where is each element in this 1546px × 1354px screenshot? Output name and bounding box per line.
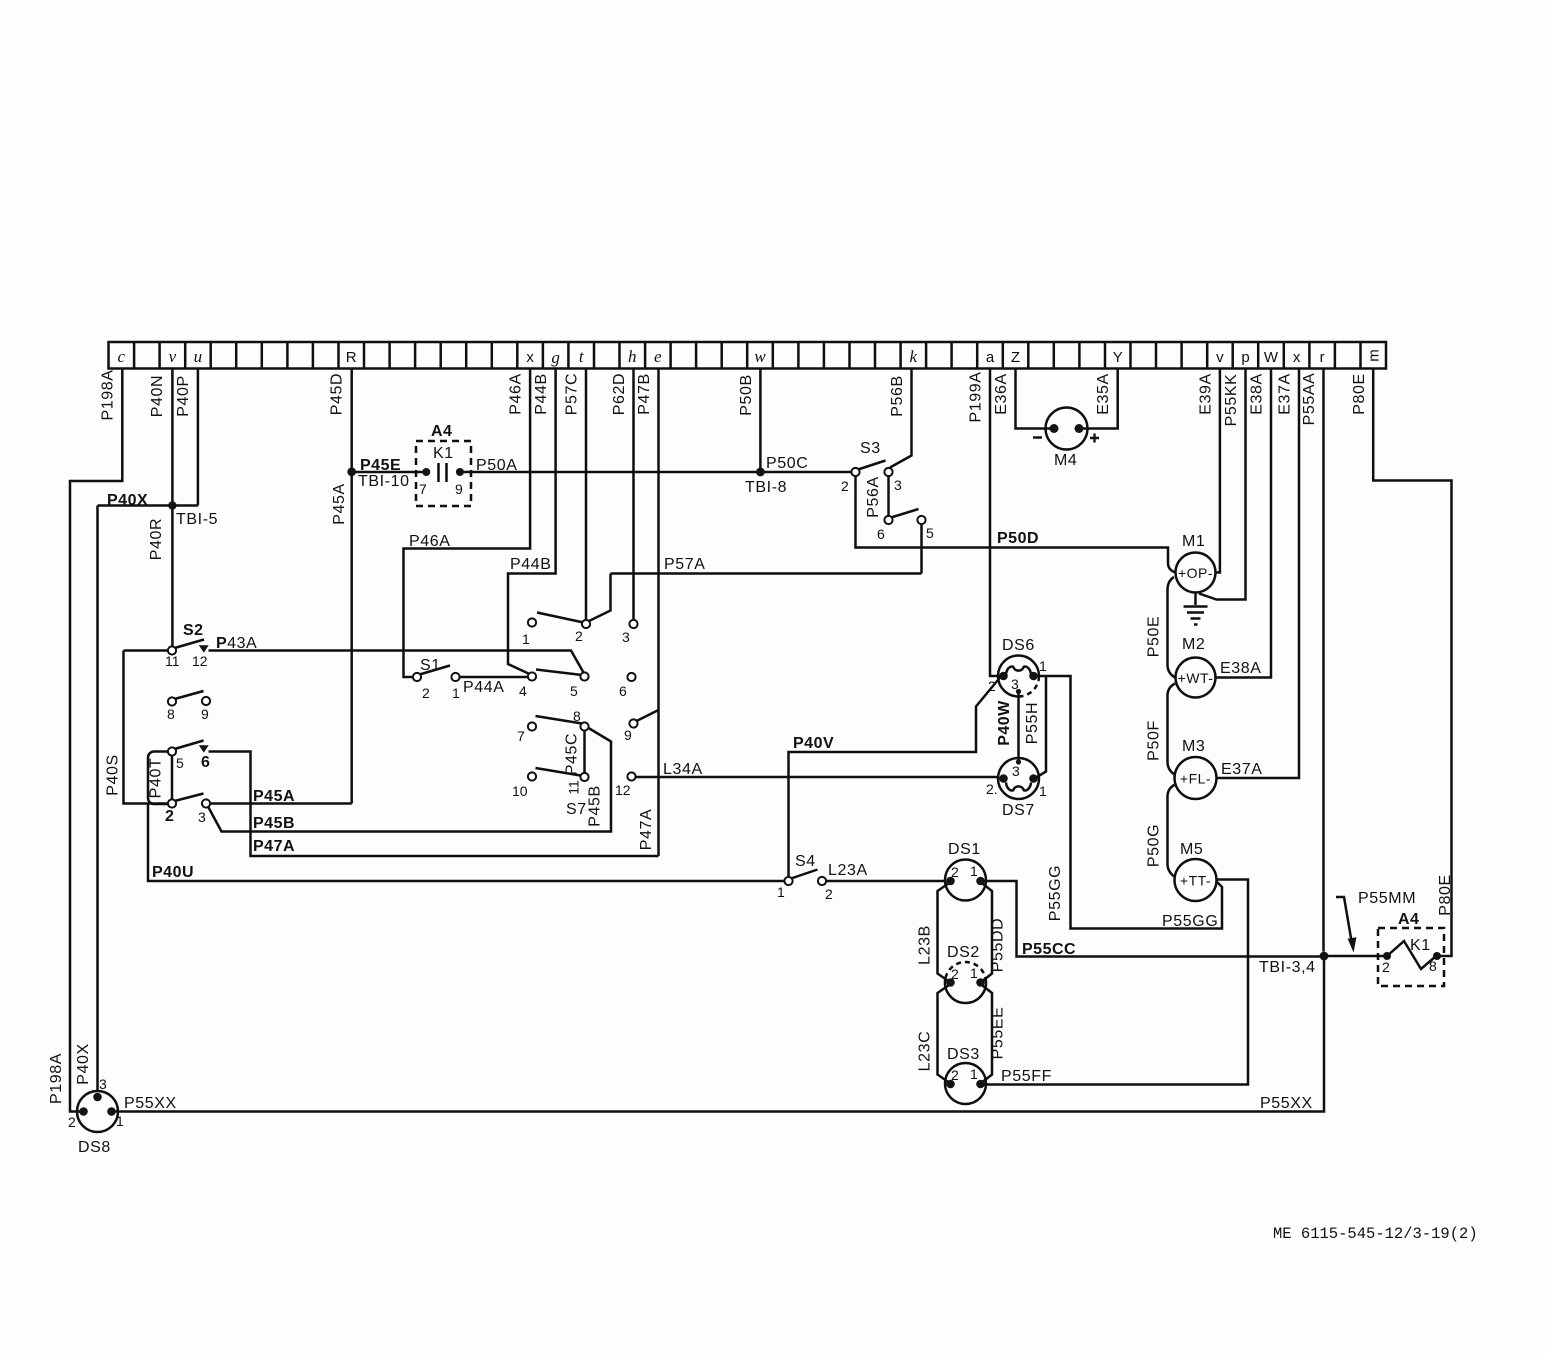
- svg-text:P47A: P47A: [638, 809, 655, 851]
- wire P55EE: [981, 984, 993, 1084]
- lamp DS7 pin dots: [999, 774, 1008, 783]
- svg-text:3: 3: [894, 477, 902, 493]
- junction TB1-3,4: [1320, 952, 1329, 961]
- switch S7 pin 6: [627, 673, 635, 681]
- switch S7 pin 2: [582, 620, 590, 628]
- svg-text:p: p: [1241, 349, 1249, 366]
- svg-text:c: c: [118, 347, 126, 366]
- wire P62D: [632, 369, 635, 621]
- switch S7 pin 12: [627, 772, 635, 780]
- switch S2 sec 2-3 arm: [175, 794, 204, 802]
- strip terminal letters: [118, 347, 1383, 367]
- svg-text:P50B: P50B: [738, 374, 755, 416]
- wire P50D: [856, 476, 1176, 573]
- svg-text:A4: A4: [1398, 911, 1419, 928]
- svg-text:P80E: P80E: [1437, 874, 1454, 916]
- svg-text:2: 2: [1382, 959, 1390, 975]
- svg-text:Y: Y: [1113, 349, 1123, 366]
- svg-text:P50D: P50D: [997, 530, 1039, 547]
- P55MM leader arrow: [1336, 897, 1352, 941]
- wire L23A: [826, 880, 946, 883]
- switch S4 pin 2: [818, 877, 826, 885]
- svg-text:S3: S3: [860, 440, 881, 457]
- wire P45C: [583, 727, 586, 778]
- svg-text:E37A: E37A: [1221, 761, 1263, 778]
- svg-text:P55FF: P55FF: [1001, 1068, 1052, 1085]
- svg-text:E38A: E38A: [1249, 373, 1266, 415]
- wire P45A horizontal: [210, 802, 352, 805]
- switch S7 pin 8: [580, 722, 588, 730]
- svg-text:5: 5: [176, 755, 184, 771]
- wire P40V: [789, 678, 1001, 878]
- relay K1 pin 7 dot: [422, 468, 430, 476]
- svg-text:A4: A4: [431, 423, 452, 440]
- wire E38A: [1216, 369, 1272, 678]
- junction P45E: [347, 467, 356, 476]
- svg-text:P44B: P44B: [533, 373, 550, 415]
- wire L23B: [938, 882, 951, 983]
- lamp DS3 circle: [945, 1063, 986, 1104]
- wire P40P: [197, 369, 200, 506]
- svg-text:v: v: [1216, 349, 1224, 366]
- meter M5 circle: [1175, 859, 1217, 901]
- svg-text:P45B: P45B: [253, 815, 295, 832]
- switch S3 pin 6: [884, 516, 892, 524]
- switch S2 pin 8: [168, 697, 176, 705]
- svg-text:P47B: P47B: [636, 373, 653, 415]
- svg-text:P47A: P47A: [253, 838, 295, 855]
- switch S2 pin 5: [168, 747, 176, 755]
- svg-text:v: v: [169, 347, 177, 366]
- svg-text:Z: Z: [1011, 349, 1020, 366]
- svg-text:M2: M2: [1182, 636, 1205, 653]
- svg-text:5: 5: [926, 525, 934, 541]
- svg-text:L23C: L23C: [917, 1031, 934, 1072]
- wire P43A: [209, 651, 584, 673]
- switch S2 pin 9: [202, 697, 210, 705]
- svg-text:1: 1: [970, 1066, 978, 1082]
- switch S1 pin 2: [413, 673, 421, 681]
- svg-text:M1: M1: [1182, 533, 1205, 550]
- svg-text:P40S: P40S: [105, 754, 122, 796]
- switch S3 pin 3: [884, 468, 892, 476]
- svg-text:3: 3: [1012, 763, 1020, 779]
- switch S1 pin 1: [451, 673, 459, 681]
- svg-text:M4: M4: [1054, 452, 1077, 469]
- svg-text:DS1: DS1: [948, 841, 981, 858]
- switch S7 pin 1: [528, 618, 536, 626]
- switch S7 pin 9: [629, 719, 637, 727]
- lamp DS1 circle: [945, 860, 986, 901]
- svg-text:3: 3: [99, 1076, 107, 1092]
- wire L34A: [634, 776, 1000, 779]
- svg-text:1: 1: [1039, 783, 1047, 799]
- svg-text:+WT-: +WT-: [1178, 670, 1214, 686]
- svg-text:5: 5: [570, 683, 578, 699]
- wire P80E: [1373, 369, 1451, 957]
- svg-text:1: 1: [777, 884, 785, 900]
- svg-text:TBI-8: TBI-8: [745, 479, 787, 496]
- switch S2 pin 2: [168, 799, 176, 807]
- switch S4 pin 1: [784, 877, 792, 885]
- switch S2 pin 11: [168, 646, 176, 654]
- svg-text:2: 2: [841, 478, 849, 494]
- wire P47B: [657, 369, 660, 857]
- svg-text:S1: S1: [420, 657, 441, 674]
- svg-text:L23B: L23B: [917, 925, 934, 965]
- svg-text:4: 4: [519, 683, 527, 699]
- wire P55AA: [1322, 369, 1325, 952]
- svg-text:12: 12: [615, 782, 631, 798]
- svg-text:P199A: P199A: [968, 371, 985, 422]
- svg-text:M5: M5: [1180, 841, 1203, 858]
- switch S2 pin 3: [202, 799, 210, 807]
- svg-text:1: 1: [116, 1113, 124, 1129]
- svg-text:P45D: P45D: [329, 373, 346, 415]
- svg-text:P45A: P45A: [331, 483, 348, 525]
- wire P45B: [208, 728, 611, 832]
- wire TB1-3,4 to K1 pin 2: [1324, 955, 1387, 958]
- wire P55H: [1035, 676, 1047, 779]
- switch S2 sec 8-9 arm: [175, 691, 204, 699]
- svg-text:1: 1: [452, 685, 460, 701]
- switch S3 pin 5: [917, 516, 925, 524]
- svg-text:P50A: P50A: [476, 457, 518, 474]
- svg-text:P55EE: P55EE: [990, 1007, 1007, 1060]
- svg-text:K1: K1: [1410, 937, 1431, 954]
- svg-text:S2: S2: [183, 622, 204, 639]
- svg-text:E38A: E38A: [1220, 660, 1262, 677]
- switch S7 pin 11: [580, 773, 588, 781]
- wire P50G: [1168, 785, 1176, 878]
- svg-text:P45E: P45E: [360, 457, 401, 474]
- switch S4 arm: [791, 870, 818, 879]
- svg-text:P40X: P40X: [107, 492, 148, 509]
- svg-text:TBI-3,4: TBI-3,4: [1259, 959, 1316, 976]
- wire TB1-5 tie: [98, 504, 198, 507]
- switch S3 sec 6-5 arm: [891, 509, 919, 518]
- svg-text:M3: M3: [1182, 738, 1205, 755]
- wire P45E P50A P50C bus: [352, 471, 427, 474]
- svg-text:P46A: P46A: [508, 373, 525, 415]
- svg-text:P55DD: P55DD: [990, 918, 1007, 973]
- svg-text:P40W: P40W: [996, 700, 1013, 746]
- wire P199A: [990, 369, 1000, 677]
- svg-text:P57C: P57C: [564, 373, 581, 415]
- svg-text:3: 3: [1011, 676, 1019, 692]
- wire P55CC: [981, 881, 1325, 957]
- relay K1 pin 2 dot: [1383, 952, 1391, 960]
- svg-text:P45B: P45B: [587, 785, 604, 827]
- wire E37A: [1217, 369, 1300, 779]
- connector P40T box: [148, 752, 172, 805]
- svg-text:P55MM: P55MM: [1358, 890, 1416, 907]
- switch S3 sec 2-3 arm: [858, 461, 886, 470]
- svg-text:P55GG: P55GG: [1047, 865, 1064, 921]
- switch S2 sec 11-12 arm: [175, 640, 205, 649]
- svg-text:8: 8: [167, 706, 175, 722]
- svg-text:1: 1: [1039, 658, 1047, 674]
- wire E39A: [1216, 369, 1220, 573]
- svg-text:S7: S7: [566, 801, 587, 818]
- svg-text:2: 2: [825, 886, 833, 902]
- svg-text:E39A: E39A: [1198, 373, 1215, 415]
- wire S7 pin9 arm to P47B: [637, 710, 659, 721]
- resistor K1 zigzag: [1387, 941, 1436, 969]
- wire P40N: [171, 369, 174, 506]
- wire P45D: [350, 369, 353, 468]
- svg-text:K1: K1: [433, 445, 454, 462]
- svg-text:P55XX: P55XX: [124, 1095, 177, 1112]
- switch S1 arm: [420, 666, 451, 675]
- svg-text:W: W: [1264, 349, 1279, 366]
- svg-text:P50C: P50C: [766, 455, 808, 472]
- wire P44A: [459, 676, 530, 679]
- wire P57A zigzag to pin2: [588, 574, 611, 622]
- switch S3 pin 2: [851, 468, 859, 476]
- wire P40U: [148, 804, 785, 881]
- svg-text:7: 7: [517, 728, 525, 744]
- wire P55DD: [981, 882, 993, 983]
- svg-text:2: 2: [575, 628, 583, 644]
- svg-text:11: 11: [566, 780, 582, 795]
- svg-text:h: h: [628, 347, 637, 366]
- wire P55GG: [1034, 676, 1223, 929]
- svg-text:P56B: P56B: [889, 375, 906, 417]
- relay K1 pin 9 dot: [456, 468, 464, 476]
- svg-text:DS7: DS7: [1002, 802, 1035, 819]
- wire P46A: [404, 369, 531, 678]
- svg-text:+FL-: +FL-: [1180, 771, 1211, 787]
- wire DS6 pin3 to DS7 pin3: [1017, 691, 1020, 762]
- wire P55FF: [981, 880, 1249, 1085]
- lamp DS6 filament: [1006, 667, 1031, 675]
- wire P198A: [70, 369, 122, 1112]
- switch S7 pin 10: [528, 772, 536, 780]
- rotated feeder labels: [48, 369, 1454, 1104]
- wire S2 pin6 to P47A: [209, 752, 659, 857]
- svg-text:g: g: [551, 348, 560, 367]
- svg-text:2: 2: [165, 808, 174, 825]
- switch S7 secA arm: [537, 613, 584, 623]
- switch S7 pin 5: [580, 672, 588, 680]
- svg-text:DS8: DS8: [78, 1139, 111, 1156]
- svg-text:9: 9: [201, 706, 209, 722]
- svg-text:9: 9: [455, 481, 463, 497]
- svg-text:8: 8: [573, 708, 581, 724]
- svg-text:P45C: P45C: [564, 733, 581, 775]
- wire P55KK: [1199, 369, 1246, 600]
- svg-text:S4: S4: [795, 853, 816, 870]
- svg-text:2: 2: [951, 864, 959, 880]
- lamp DS6 pin dots: [999, 672, 1008, 681]
- wire P44B: [508, 369, 556, 675]
- svg-text:L23A: L23A: [828, 862, 868, 879]
- svg-text:DS6: DS6: [1002, 637, 1035, 654]
- wire P40S vertical: [124, 651, 169, 804]
- lamp DS8 pin dots: [93, 1093, 102, 1102]
- relay A4 K1 top dashed box: [416, 441, 471, 506]
- svg-text:P50F: P50F: [1146, 720, 1163, 761]
- switch S7 pin 4: [528, 672, 536, 680]
- ground under M1: [1184, 593, 1208, 625]
- svg-text:DS3: DS3: [947, 1046, 980, 1063]
- lamp DS1 pin dots: [946, 877, 955, 886]
- svg-text:6: 6: [877, 526, 885, 542]
- lamp DS7 circle: [998, 758, 1039, 799]
- switch S7 secC arm: [536, 716, 583, 724]
- relay A4 K1 bottom dashed box: [1378, 928, 1444, 986]
- wire P50B: [759, 369, 762, 473]
- wire P57A: [611, 572, 922, 575]
- svg-text:x: x: [526, 349, 534, 366]
- lamp DS8 circle: [77, 1091, 118, 1132]
- svg-text:a: a: [986, 349, 995, 366]
- relay K1 pin 8 dot: [1433, 952, 1441, 960]
- svg-text:E36A: E36A: [993, 373, 1010, 415]
- svg-text:P55H: P55H: [1024, 702, 1041, 744]
- svg-text:1: 1: [970, 863, 978, 879]
- svg-text:m: m: [1366, 349, 1383, 362]
- svg-text:P62D: P62D: [611, 373, 628, 415]
- svg-text:P45A: P45A: [253, 788, 295, 805]
- svg-text:1: 1: [522, 631, 530, 647]
- svg-text:P40V: P40V: [793, 735, 834, 752]
- svg-text:10: 10: [512, 783, 528, 799]
- svg-text:P198A: P198A: [48, 1053, 65, 1104]
- svg-text:P80E: P80E: [1351, 373, 1368, 415]
- svg-text:r: r: [1320, 349, 1325, 366]
- svg-text:P55GG: P55GG: [1162, 913, 1218, 930]
- svg-text:P50E: P50E: [1146, 616, 1163, 658]
- svg-text:8: 8: [1429, 958, 1437, 974]
- wire P56A: [887, 476, 890, 516]
- svg-text:P43A: P43A: [216, 635, 257, 652]
- wire P50F: [1168, 684, 1176, 776]
- arrow S2 pin12: [199, 645, 209, 652]
- svg-text:3: 3: [622, 629, 630, 645]
- svg-text:7: 7: [419, 481, 427, 497]
- terminal strip TB outline: [109, 342, 1387, 369]
- svg-text:2: 2: [68, 1114, 76, 1130]
- wire P40X: [96, 506, 99, 1093]
- wire E36A: [1016, 369, 1052, 429]
- svg-text:2: 2: [951, 1067, 959, 1083]
- wire P50E: [1168, 577, 1176, 678]
- M4 polarity: [1033, 434, 1099, 443]
- svg-text:P44A: P44A: [463, 679, 505, 696]
- lamp DS3 pin dots: [946, 1080, 955, 1089]
- svg-text:+TT-: +TT-: [1180, 873, 1211, 889]
- svg-text:E37A: E37A: [1277, 373, 1294, 415]
- arrow P55MM tip: [1348, 937, 1357, 952]
- svg-text:E35A: E35A: [1095, 373, 1112, 415]
- svg-text:P40R: P40R: [148, 518, 165, 560]
- svg-text:6: 6: [201, 754, 210, 771]
- svg-text:11: 11: [165, 653, 180, 669]
- switch S7 secD arm: [536, 768, 581, 776]
- svg-text:P40T: P40T: [148, 758, 165, 799]
- lamp DS6 circle: [998, 656, 1039, 697]
- lamp DS2 circle: [945, 978, 986, 1003]
- svg-text:P56A: P56A: [865, 476, 882, 518]
- switch S7 pin 7: [528, 722, 536, 730]
- svg-text:P198A: P198A: [100, 369, 117, 420]
- wire P56B: [890, 369, 912, 468]
- meter M3 circle: [1175, 757, 1217, 799]
- svg-text:6: 6: [619, 683, 627, 699]
- wire P57C: [585, 369, 588, 621]
- svg-text:2.: 2.: [986, 781, 998, 797]
- svg-text:P46A: P46A: [409, 533, 451, 550]
- lamp DS2 pin dots: [946, 978, 955, 987]
- svg-text:w: w: [754, 347, 766, 366]
- svg-text:P57A: P57A: [664, 556, 706, 573]
- svg-text:P40P: P40P: [175, 375, 192, 417]
- svg-text:2: 2: [951, 966, 959, 982]
- wire S3 pin5 to P57A: [920, 524, 923, 574]
- svg-text:L34A: L34A: [663, 761, 703, 778]
- svg-text:P55AA: P55AA: [1301, 373, 1318, 426]
- svg-text:2: 2: [988, 678, 996, 694]
- arrow S2 pin6: [199, 745, 209, 752]
- svg-text:P40U: P40U: [152, 864, 194, 881]
- svg-text:+OP-: +OP-: [1178, 565, 1213, 581]
- meter M4 circle: [1046, 408, 1088, 450]
- switch S2 sec 5-6 arm: [175, 741, 204, 750]
- junction TB1-5: [168, 501, 176, 509]
- switch S7 secB arm: [536, 670, 582, 676]
- wire E35A: [1082, 369, 1118, 429]
- svg-text:TBI-10: TBI-10: [358, 473, 410, 490]
- svg-text:12: 12: [192, 653, 208, 669]
- meter M2 circle: [1176, 658, 1216, 698]
- lamp DS7 filament: [1006, 783, 1031, 791]
- relay K1 contact bars: [439, 463, 447, 482]
- svg-text:R: R: [346, 349, 357, 366]
- terminal strip cell dividers: [134, 342, 1360, 369]
- svg-text:3: 3: [198, 809, 206, 825]
- switch S7 pin 3: [629, 620, 637, 628]
- svg-text:1: 1: [970, 965, 978, 981]
- wire L23C: [938, 984, 951, 1084]
- wire S2 pin11 left: [124, 649, 169, 652]
- svg-text:P40N: P40N: [149, 375, 166, 417]
- svg-text:P50G: P50G: [1146, 824, 1163, 867]
- svg-text:x: x: [1293, 349, 1301, 366]
- svg-text:P44B: P44B: [510, 556, 552, 573]
- svg-text:DS2: DS2: [947, 944, 980, 961]
- svg-text:e: e: [654, 347, 662, 366]
- meter M4 terminal dots: [1050, 424, 1059, 433]
- junction TB1-8: [756, 468, 765, 477]
- meter M1 circle: [1176, 553, 1216, 593]
- svg-text:P40X: P40X: [75, 1043, 92, 1085]
- wire P55XX: [112, 957, 1324, 1112]
- svg-text:P55CC: P55CC: [1022, 941, 1076, 958]
- svg-text:TBI-5: TBI-5: [176, 511, 218, 528]
- wire P40R: [171, 506, 174, 647]
- svg-text:k: k: [910, 347, 918, 366]
- svg-text:P55XX: P55XX: [1260, 1095, 1313, 1112]
- svg-text:9: 9: [624, 727, 632, 743]
- svg-text:2: 2: [422, 685, 430, 701]
- svg-text:u: u: [194, 347, 203, 366]
- svg-text:P55KK: P55KK: [1223, 374, 1240, 427]
- wire P45A vertical: [350, 472, 353, 804]
- svg-text:ME 6115-545-12/3-19(2): ME 6115-545-12/3-19(2): [1273, 1225, 1478, 1243]
